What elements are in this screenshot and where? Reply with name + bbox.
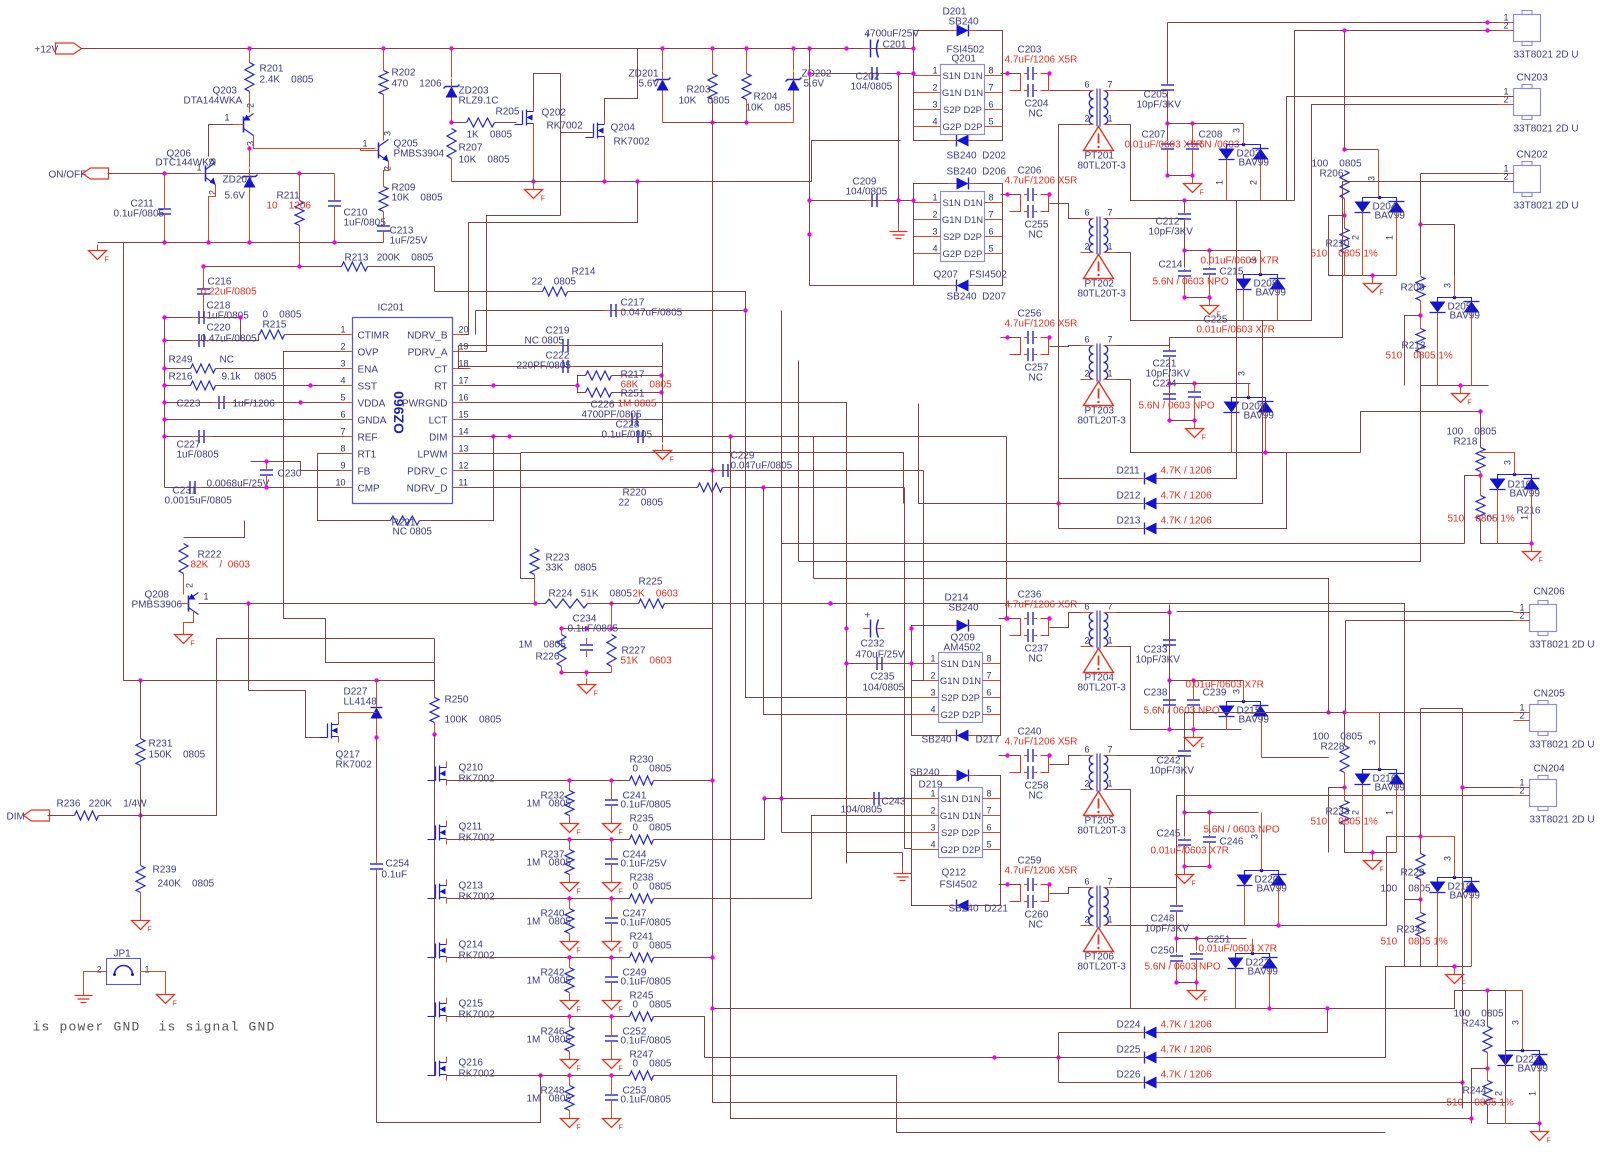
wire D224 bus: [1058, 1033, 1060, 1083]
junction ch2 d: [1182, 248, 1186, 252]
ground D204: [1372, 278, 1374, 284]
svg-text:80TL20T-3: 80TL20T-3: [1078, 161, 1127, 172]
wire DIM row: [465, 436, 1007, 438]
svg-text:2: 2: [185, 583, 195, 588]
svg-text:10K 0805: 10K 0805: [459, 155, 511, 166]
mosfet Q217: [331, 723, 333, 739]
svg-text:80TL20T-3: 80TL20T-3: [1078, 826, 1127, 837]
svg-text:RK7002: RK7002: [459, 774, 496, 785]
ground R248: [569, 1113, 571, 1119]
capacitor C214: [1178, 270, 1191, 272]
svg-text:10pF/3KV: 10pF/3KV: [1150, 766, 1195, 777]
wire OVP chain: [284, 352, 435, 681]
wire R218 feed: [1361, 412, 1481, 453]
wire R207 bot: [451, 159, 453, 182]
svg-text:4.7K / 1206: 4.7K / 1206: [1161, 491, 1213, 502]
wire R242 top: [569, 958, 571, 968]
svg-text:2: 2: [931, 806, 936, 816]
ground ch5: [1184, 869, 1186, 875]
wire R239 top: [140, 816, 142, 866]
svg-text:C243: C243: [882, 797, 906, 808]
wire D210 p1: [1531, 490, 1533, 544]
resistor R244: [1483, 1081, 1492, 1105]
svg-text:SB240 D221: SB240 D221: [949, 904, 1009, 915]
wire R206 tap row: [1345, 149, 1379, 151]
ground D223: [1539, 1126, 1541, 1132]
junction C230 top: [264, 459, 268, 463]
resistor R221: [391, 516, 420, 525]
junction R216: [162, 383, 166, 387]
svg-text:D226: D226: [1117, 1070, 1141, 1081]
svg-text:10K 085: 10K 085: [746, 103, 792, 114]
junction Q211 a: [567, 837, 571, 841]
svg-text:0.01uF/0603 X7R: 0.01uF/0603 X7R: [1199, 944, 1277, 955]
svg-text:F: F: [541, 196, 545, 203]
junction C232 r: [909, 626, 913, 630]
diode D211: [1145, 473, 1157, 485]
wire D212 row: [1059, 503, 1138, 505]
capacitor C226: [631, 413, 633, 426]
wire C210 bottom: [334, 212, 336, 243]
diode D217: [957, 730, 969, 742]
wire DIM node up: [140, 681, 142, 739]
wire ch6 cn204: [1177, 796, 1514, 880]
svg-text:SB240: SB240: [922, 735, 952, 746]
junction D212 bus: [1056, 501, 1060, 505]
svg-text:33T8021 2D U: 33T8021 2D U: [1514, 201, 1579, 212]
junction ch3 b: [1047, 335, 1051, 339]
svg-text:D212: D212: [1117, 491, 1141, 502]
svg-text:10pF/3KV: 10pF/3KV: [1149, 227, 1194, 238]
wire R228 R233: [1344, 773, 1346, 801]
diode D207: [957, 280, 969, 292]
junction ch2 c: [1182, 198, 1186, 202]
wire R236 right: [99, 815, 141, 817]
capacitor C224: [1163, 393, 1176, 395]
svg-text:2: 2: [1085, 242, 1090, 252]
svg-text:F: F: [619, 948, 623, 955]
junction DIM down: [1004, 616, 1008, 620]
svg-text:0.1uF/0805: 0.1uF/0805: [621, 1036, 672, 1047]
wire left long col: [123, 243, 125, 681]
svg-text:4.7K / 1206: 4.7K / 1206: [1161, 1070, 1213, 1081]
wire Q212 ground link: [847, 852, 903, 854]
wire D215 tap: [1243, 681, 1245, 702]
wire Q206 emitter: [209, 185, 216, 243]
wire C253 top: [611, 1076, 613, 1095]
capacitor C234: [580, 644, 593, 646]
wire Q214 source row: [447, 957, 630, 959]
svg-text:7: 7: [1108, 877, 1113, 887]
bus wire B: [919, 404, 1059, 504]
svg-text:1: 1: [933, 193, 938, 203]
capacitor C242: [1178, 750, 1191, 752]
junction ch5 f: [1207, 864, 1211, 868]
diode D225: [1145, 1052, 1157, 1064]
wire D226 row: [1059, 1082, 1138, 1084]
junction ch6 d: [1194, 936, 1198, 940]
wire R243 col: [1487, 991, 1489, 1027]
svg-text:2: 2: [1520, 786, 1525, 796]
junction col730 b: [1469, 1116, 1473, 1120]
resistor R201: [245, 63, 254, 92]
wire Q216 source row: [447, 1075, 630, 1077]
svg-text:G2P D2P: G2P D2P: [943, 249, 983, 260]
wire C224 bot: [1169, 401, 1171, 421]
svg-text:S2P D2P: S2P D2P: [943, 232, 982, 243]
svg-text:9: 9: [340, 461, 345, 471]
svg-text:10: 10: [335, 478, 345, 488]
wire PT201 p1 down: [1117, 125, 1295, 201]
bus col 923: [912, 471, 924, 681]
wire C220 row: [165, 335, 259, 341]
svg-text:2: 2: [340, 342, 345, 352]
resistor R237: [565, 850, 574, 875]
capacitor C217: [610, 304, 612, 317]
wire Q207 top loop: [914, 184, 1003, 203]
svg-text:R204: R204: [754, 92, 778, 103]
wire C241 bot: [611, 806, 613, 818]
capacitor C259: [1027, 878, 1029, 891]
svg-text:1: 1: [933, 66, 938, 76]
capacitor C233: [1163, 639, 1176, 641]
resistor R245: [630, 1012, 654, 1021]
capacitor C201: [870, 40, 872, 58]
ground R237: [569, 877, 571, 883]
svg-text:2: 2: [1249, 180, 1259, 185]
ground R239: [140, 915, 142, 921]
resistor R209: [379, 187, 388, 212]
junction Q214 a: [567, 955, 571, 959]
junction Q217 row l: [138, 678, 142, 682]
junction R228 top: [1342, 710, 1346, 714]
wire R209 bottom: [383, 212, 385, 226]
resistor R217: [586, 371, 612, 380]
svg-text:NC: NC: [1029, 230, 1043, 241]
svg-text:0 0805: 0 0805: [633, 882, 672, 893]
svg-text:F: F: [1380, 290, 1384, 297]
wire D225 out: [1164, 1057, 1219, 1059]
svg-text:R243: R243: [1462, 1019, 1486, 1030]
wire Q208 col down: [248, 604, 250, 691]
svg-text:6: 6: [1085, 877, 1090, 887]
svg-text:BAV99: BAV99: [1450, 311, 1481, 322]
wire PDRV_C row: [465, 470, 924, 472]
svg-text:2: 2: [1486, 515, 1496, 520]
capacitor C251: [1190, 953, 1203, 955]
svg-text:3: 3: [1232, 128, 1242, 133]
wire C208 col: [1192, 124, 1194, 144]
junction cn1: [1485, 20, 1489, 24]
svg-text:R202: R202: [392, 68, 416, 79]
junction C234 d: [559, 670, 563, 674]
wire C252 bot: [611, 1042, 613, 1054]
junction stair4: [1325, 1006, 1329, 1010]
svg-text:R250: R250: [445, 695, 469, 706]
wire D205 p2: [1437, 313, 1439, 386]
wire Q217 gate: [249, 691, 320, 738]
pin 8 IC201: [341, 453, 353, 455]
svg-text:104/0805: 104/0805: [863, 683, 905, 694]
svg-text:VDDA: VDDA: [358, 399, 386, 410]
svg-text:470uF/25V: 470uF/25V: [856, 650, 905, 661]
wire C235 row: [847, 663, 912, 665]
svg-text:D225: D225: [1117, 1045, 1141, 1056]
ground C247: [611, 936, 613, 942]
junction C217: [743, 308, 747, 312]
svg-text:G2P D2P: G2P D2P: [941, 845, 981, 856]
wire ch3 return: [1117, 380, 1232, 453]
junction D216 gnd: [1370, 850, 1374, 854]
svg-text:F: F: [1380, 867, 1384, 874]
wire D216 p2: [1362, 785, 1364, 853]
capacitor C248: [1170, 905, 1183, 907]
wire R205 row: [452, 122, 467, 124]
junction D220 bot: [1276, 923, 1280, 927]
svg-text:CN204: CN204: [1534, 764, 1566, 775]
svg-text:4: 4: [933, 244, 938, 254]
wire R249 right: [216, 368, 341, 370]
junction gnd rail: [332, 240, 336, 244]
ic U IC201 OZ960: [353, 318, 453, 504]
junction trio2: [992, 1055, 996, 1059]
wire R224 R225 link: [588, 603, 639, 605]
capacitor C243: [873, 792, 875, 805]
ground D210: [1531, 546, 1533, 552]
diode D202: [957, 135, 969, 147]
capacitor C250: [1170, 955, 1183, 957]
svg-text:R234: R234: [1397, 925, 1421, 936]
wire PDRV_A route: [465, 216, 561, 352]
svg-text:SST: SST: [358, 382, 377, 393]
svg-text:3: 3: [1249, 258, 1259, 263]
svg-text:3: 3: [340, 359, 345, 369]
resistor R227: [607, 635, 616, 667]
resistor R238: [630, 894, 654, 903]
svg-text:5.6V: 5.6V: [225, 191, 246, 202]
wire C234 bot row: [562, 672, 612, 674]
junction gnd rail: [162, 240, 166, 244]
svg-text:3: 3: [931, 823, 936, 833]
svg-text:CMP: CMP: [358, 484, 381, 495]
junction R213 row: [297, 264, 301, 268]
wire ch5 row866: [1185, 866, 1210, 868]
wire RT1 left: [318, 454, 391, 521]
bus col 712: [713, 471, 1506, 1103]
svg-text:104/0805: 104/0805: [841, 805, 883, 816]
wire C236 bracket2: [1041, 619, 1049, 636]
svg-text:7: 7: [1108, 335, 1113, 345]
wire R217 left rail: [578, 376, 586, 393]
svg-text:BAV99: BAV99: [1256, 288, 1287, 299]
svg-text:104/0805: 104/0805: [851, 82, 893, 93]
wire Q217 to R250: [377, 680, 435, 682]
junction DIM a: [507, 434, 511, 438]
svg-text:10pF/3KV: 10pF/3KV: [1137, 100, 1182, 111]
junction D215 bot2: [1326, 710, 1330, 714]
wire left cap col2: [846, 629, 848, 864]
wire R211 bottom: [299, 226, 301, 267]
junction +12V rail: [791, 46, 795, 50]
svg-text:PDRV_A: PDRV_A: [408, 348, 448, 359]
ground CT: [662, 445, 664, 451]
bus wire F: [831, 604, 1405, 900]
svg-text:0.1uF/25V: 0.1uF/25V: [621, 859, 667, 870]
resistor R216: [191, 381, 216, 390]
transformer PT201: [1089, 91, 1093, 100]
resistor R210: [1340, 229, 1349, 253]
svg-text:3: 3: [1237, 371, 1247, 376]
junction C234 e: [584, 670, 588, 674]
wire R232 bot: [569, 816, 571, 818]
connector CN205: [1530, 705, 1557, 732]
wire R202 top: [383, 49, 385, 71]
wire R231 bot: [140, 766, 142, 816]
resistor R231: [136, 739, 145, 766]
capacitor C256: [1027, 331, 1029, 344]
svg-text:R246: R246: [541, 1027, 565, 1038]
junction R216b top: [1478, 473, 1482, 477]
svg-text:S2P D2P: S2P D2P: [941, 828, 980, 839]
wire C246 col: [1209, 813, 1211, 834]
ground D205: [1460, 388, 1462, 394]
svg-text:0.01uF/0603 X7R: 0.01uF/0603 X7R: [1186, 680, 1264, 691]
svg-text:R240: R240: [541, 909, 565, 920]
svg-text:BAV99: BAV99: [1450, 891, 1481, 902]
svg-text:C224: C224: [1153, 379, 1177, 390]
wire C209 row: [810, 200, 914, 202]
svg-text:5.6N / 0603 NPO: 5.6N / 0603 NPO: [1153, 277, 1229, 288]
wire ch5 row812: [1185, 812, 1259, 814]
svg-text:2: 2: [1494, 1091, 1504, 1096]
wire R216b bot: [1481, 520, 1532, 544]
junction col712 a: [710, 1006, 714, 1010]
wire D212 out: [1164, 503, 1219, 505]
diode D221: [957, 900, 969, 912]
svg-text:is power GND is signal GND: is power GND is signal GND: [33, 1020, 276, 1035]
svg-text:17: 17: [459, 376, 469, 386]
wire R213 right: [368, 267, 435, 292]
svg-text:G2P D2P: G2P D2P: [943, 122, 983, 133]
capacitor C210: [328, 200, 341, 202]
wire Q207 bottom loop: [914, 254, 1003, 286]
junction ch5 d: [1207, 810, 1211, 814]
wire JP1 right: [141, 972, 166, 989]
svg-text:F: F: [619, 889, 623, 896]
wire R221 right: [420, 437, 494, 521]
junction C202 r: [911, 71, 915, 75]
pin 9 IC201: [341, 470, 353, 472]
junction ch3 d: [1192, 381, 1196, 385]
svg-text:F: F: [619, 1066, 623, 1073]
mosfet Q216: [439, 1061, 441, 1077]
svg-text:4.7K / 1206: 4.7K / 1206: [1161, 466, 1213, 477]
svg-text:0 0805: 0 0805: [633, 823, 672, 834]
wire +12V rail: [82, 48, 914, 50]
svg-text:R203: R203: [687, 85, 711, 96]
svg-text:Q210: Q210: [459, 763, 484, 774]
resistor R204: [742, 74, 751, 100]
svg-text:7: 7: [1108, 745, 1113, 755]
svg-text:2: 2: [1520, 611, 1525, 621]
svg-text:OVP: OVP: [358, 348, 379, 359]
wire C252 top: [611, 1017, 613, 1036]
svg-text:1: 1: [1215, 180, 1225, 185]
wire Q208 base row: [199, 603, 546, 605]
resistor R233: [1340, 801, 1349, 825]
junction ch4 c: [1167, 678, 1171, 682]
svg-text:R205: R205: [496, 107, 520, 118]
wire C253 bot: [611, 1101, 613, 1113]
wire Q209 right rail: [1000, 664, 1002, 715]
wire Q204 drain: [605, 49, 638, 119]
svg-text:11: 11: [459, 478, 468, 488]
svg-text:2K 0603: 2K 0603: [633, 589, 679, 600]
svg-text:F: F: [1202, 435, 1206, 442]
svg-text:0.047uF/0805: 0.047uF/0805: [731, 461, 793, 472]
port ON/OFF: [83, 168, 109, 179]
pin 4 IC201: [341, 385, 353, 387]
diode D204 BAV99: [1355, 202, 1371, 213]
svg-text:Q207 FSI4502: Q207 FSI4502: [934, 270, 1008, 281]
wire Q203 base: [209, 125, 234, 157]
pin 3 IC201: [341, 368, 353, 370]
junction R208 top: [1418, 222, 1422, 226]
capacitor C225: [1188, 391, 1201, 393]
resistor R242: [565, 968, 574, 993]
svg-text:IC201: IC201: [378, 303, 405, 314]
wire Q213 source row: [447, 898, 630, 900]
ic Q212: [939, 788, 983, 858]
connector CN202: [1514, 166, 1541, 193]
wire R228 col: [1344, 713, 1346, 746]
svg-text:F: F: [594, 691, 598, 698]
wire ch5 pair in: [999, 755, 1020, 757]
bus col 763: [764, 488, 912, 715]
mosfet Q213: [439, 884, 441, 900]
wire D205 p1: [1471, 313, 1473, 386]
junction source rail2: [635, 179, 639, 183]
junction gndsig b: [896, 198, 900, 202]
svg-text:4.7K / 1206: 4.7K / 1206: [1161, 516, 1213, 527]
svg-text:14: 14: [459, 427, 469, 437]
capacitor C246: [1203, 836, 1216, 838]
svg-text:1uF/0805: 1uF/0805: [344, 218, 387, 229]
svg-text:2: 2: [1085, 779, 1090, 789]
svg-text:1: 1: [931, 654, 936, 664]
wire C222 row: [459, 366, 663, 368]
junction ch1 e: [1165, 173, 1169, 177]
junction R229 top: [1418, 834, 1422, 838]
wire C211 top: [164, 174, 166, 205]
svg-text:33K 0805: 33K 0805: [546, 563, 598, 574]
svg-text:4: 4: [933, 117, 938, 127]
svg-text:5: 5: [340, 393, 345, 403]
resistor R229: [1416, 854, 1425, 880]
svg-text:2: 2: [933, 210, 938, 220]
svg-text:4: 4: [340, 376, 345, 386]
wire Q205 base: [361, 149, 369, 151]
junction R243 top: [1485, 988, 1489, 992]
wire ch3 out col: [1169, 338, 1171, 349]
svg-text:G2P D2P: G2P D2P: [941, 710, 981, 721]
junction ch2 e: [1207, 248, 1211, 252]
ic Q201: [941, 65, 985, 135]
svg-text:G1N D1N: G1N D1N: [942, 88, 983, 99]
wire R229 col: [1420, 837, 1422, 854]
junction C218: [162, 315, 166, 319]
wire C215 col: [1209, 251, 1211, 266]
